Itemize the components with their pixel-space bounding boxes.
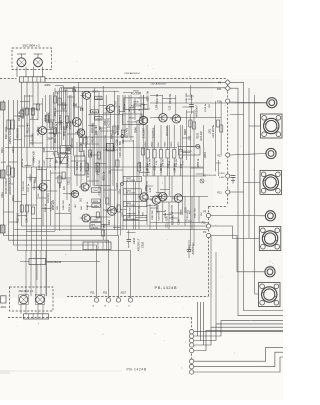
svg-text:C311 47p: C311 47p (33, 157, 35, 167)
resistor bank R243-R251 (146, 125, 182, 176)
pin P13 (226, 190, 230, 194)
wire bus left 3 (14, 100, 97, 298)
wire bus left 4 (18, 100, 131, 298)
wire rail y222 (150, 222, 208, 224)
svg-text:C318 1u: C318 1u (205, 103, 207, 112)
wire rail y137 (79, 136, 124, 138)
pin P23 (106, 298, 110, 302)
wire mesh verticals (26, 82, 221, 296)
svg-text:R361: R361 (60, 182, 62, 188)
svg-text:R248: R248 (185, 129, 187, 135)
connector CN2 jack (260, 171, 282, 195)
diode D301 (73, 89, 76, 92)
svg-text:R234 1W: R234 1W (170, 93, 172, 103)
pin CN5-2 (189, 334, 193, 338)
capacitor C240 box (91, 217, 101, 222)
svg-text:R387 560: R387 560 (195, 207, 197, 217)
svg-text:C340 47u: C340 47u (27, 212, 29, 223)
svg-text:R301: R301 (2, 147, 4, 153)
module box D4-152 (75, 156, 85, 175)
svg-text:C319 47p: C319 47p (48, 192, 50, 203)
wire rail y226 (22, 225, 209, 227)
switch S301 contact b (57, 153, 61, 163)
wire (42, 110, 44, 127)
svg-text:R382 560: R382 560 (152, 209, 154, 219)
wire rail (55, 90, 119, 92)
svg-text:AR50V 220x5: AR50V 220x5 (8, 127, 12, 144)
svg-text:C322 1u: C322 1u (69, 203, 71, 212)
relay RL301 coil box (61, 146, 71, 154)
node board outline jog (209, 206, 228, 208)
svg-text:R336: R336 (84, 150, 86, 156)
wire mesh batch2 (4, 86, 200, 296)
svg-text:R195 0.35W: R195 0.35W (87, 163, 90, 178)
resistor R263 (123, 189, 141, 194)
node board outline top edge (0, 78, 17, 80)
resistor R264 (123, 201, 147, 206)
transistor Q317 (105, 207, 116, 216)
svg-text:R230 1W: R230 1W (148, 90, 150, 100)
wire bottom pin buses (194, 302, 283, 372)
wire v254 (254, 95, 256, 294)
svg-text:R333 1k: R333 1k (22, 158, 24, 167)
svg-text:2SA1301: 2SA1301 (171, 204, 174, 213)
svg-text:C319: C319 (219, 173, 225, 175)
resistor R265 (123, 215, 147, 220)
svg-text:C316: C316 (142, 241, 145, 248)
wire rail y167 (22, 166, 204, 168)
svg-text:C317 1u: C317 1u (28, 183, 30, 192)
connector CN4 jack (259, 283, 281, 307)
svg-text:R228 1k: R228 1k (119, 105, 121, 114)
svg-text:R345 560: R345 560 (63, 199, 65, 209)
pin P21 (94, 298, 98, 302)
resistor scatter boxes (7, 96, 223, 236)
wire v249 (248, 88, 250, 238)
label pin letters (93, 305, 131, 308)
svg-text:P12: P12 (217, 155, 222, 157)
svg-text:AR500Vx7: AR500Vx7 (192, 242, 195, 255)
svg-text:R323 4k7: R323 4k7 (61, 120, 63, 130)
svg-text:LGR 119Hu: LGR 119Hu (212, 124, 215, 138)
svg-text:AR50V: AR50V (30, 174, 33, 182)
module terminal block (83, 242, 111, 250)
wire rail y196 (150, 195, 208, 197)
pin P20 (225, 86, 230, 91)
svg-text:C313 A/R100Vx7: C313 A/R100Vx7 (151, 83, 168, 86)
wire (6, 370, 122, 372)
wire rail y176 (143, 175, 206, 177)
wire (21, 82, 23, 226)
svg-text:R223: R223 (93, 201, 99, 203)
pin P1A (226, 99, 230, 103)
wire rail y117 (150, 117, 221, 119)
node board outline bottom edge (67, 296, 209, 298)
pin CN5-6 (189, 359, 193, 363)
svg-text:LOR 5W: LOR 5W (149, 159, 151, 167)
svg-text:PB-1424B: PB-1424B (127, 368, 147, 372)
wire sq3 feed (249, 238, 260, 240)
wire (32, 82, 34, 147)
capacitor C315 (187, 240, 191, 258)
svg-text:R331 560: R331 560 (55, 132, 57, 143)
transistor Q306 (75, 129, 85, 136)
svg-text:PB-1424B: PB-1424B (155, 285, 178, 290)
svg-text:R317 820: R317 820 (31, 107, 35, 119)
svg-text:R339 220: R339 220 (23, 180, 25, 190)
pin P8 (225, 80, 230, 85)
node board outline right edge (227, 80, 229, 205)
svg-text:C323: C323 (117, 183, 119, 189)
svg-text:0.22: 0.22 (168, 163, 170, 168)
svg-text:E107: E107 (93, 92, 99, 94)
svg-text:C307 47p: C307 47p (127, 127, 129, 138)
wire mid-bottom link b (215, 252, 217, 324)
svg-text:25C2291: 25C2291 (107, 117, 110, 128)
pin CN5-1 (189, 330, 193, 334)
label texture group (2, 90, 207, 228)
wire sq2 feed (244, 182, 261, 184)
svg-text:LOR: LOR (157, 104, 159, 109)
wire mid-bottom link a (210, 236, 212, 327)
svg-text:C328 47u: C328 47u (159, 210, 161, 220)
resistor 100 box (92, 204, 100, 208)
wire (37, 82, 39, 120)
svg-text:2SC1904 x 2: 2SC1904 x 2 (23, 43, 41, 47)
transistor Q316 (79, 183, 89, 191)
svg-text:0.022: 0.022 (1, 162, 7, 164)
svg-text:C707: C707 (115, 100, 118, 107)
svg-text:R365 220: R365 220 (53, 199, 55, 210)
wire P11 feed (211, 226, 249, 239)
node speckle (11, 60, 275, 369)
pin CN5-7 (189, 365, 193, 369)
svg-text:GP2: GP2 (109, 219, 111, 224)
svg-text:R337 1k2: R337 1k2 (50, 158, 52, 168)
wire bus left 2 (9, 100, 109, 298)
transistor Q303 (70, 118, 81, 127)
module A301 dashed enclosure (12, 48, 52, 70)
resistor F2 circle label (121, 135, 135, 139)
svg-text:R384 1k: R384 1k (165, 209, 167, 218)
svg-text:C310: C310 (93, 190, 99, 192)
svg-text:0.022: 0.022 (44, 159, 46, 165)
wire (0, 79, 213, 298)
wire P20 feed (230, 88, 283, 316)
wire P9 to terminal (211, 215, 266, 217)
pin P9 (206, 213, 210, 217)
wire bus left 1 (4, 100, 119, 298)
svg-text:P13: P13 (217, 192, 222, 194)
transistor Q309 (157, 114, 168, 122)
svg-text:R343 1k: R343 1k (45, 203, 47, 212)
transistor Q352 (34, 58, 43, 67)
transistor Q308 (137, 116, 148, 124)
module A304 dashed enclosure (10, 287, 54, 311)
svg-text:R335 560: R335 560 (39, 159, 41, 169)
resistor R319 (0, 225, 5, 233)
capacitor C316 (127, 230, 131, 248)
svg-text:R232 1W: R232 1W (157, 93, 159, 103)
svg-text:R309: R309 (13, 195, 15, 201)
wire sq1 feed (249, 125, 261, 127)
transistor Q305 (105, 105, 115, 113)
transistor Q310 (170, 115, 181, 123)
svg-text:R238: R238 (133, 91, 139, 93)
resistor R262 (123, 176, 141, 181)
pin A207 (128, 298, 132, 302)
capacitor C310 box (91, 188, 101, 192)
wire rail y114 (88, 114, 123, 116)
diode D303 (80, 108, 83, 111)
connector J1 terminal (267, 98, 277, 108)
resistor R240 box (123, 114, 143, 125)
transistor Q315 (69, 190, 78, 197)
svg-text:A207: A207 (121, 292, 127, 295)
svg-text:R386: R386 (181, 209, 183, 215)
connector strip lower (24, 314, 49, 319)
svg-text:P20: P20 (217, 89, 222, 91)
wire rail y147 (5, 147, 177, 149)
svg-text:LOR 5W: LOR 5W (147, 163, 149, 173)
svg-text:220u: 220u (27, 162, 29, 168)
svg-text:R229 560: R229 560 (134, 102, 136, 112)
svg-text:C303 1u: C303 1u (56, 123, 58, 132)
svg-text:C321: C321 (69, 179, 71, 185)
svg-text:A304: A304 (1, 306, 7, 309)
svg-text:R240: R240 (129, 118, 135, 120)
wire P2 feed (211, 236, 265, 272)
svg-text:C316: C316 (133, 237, 136, 244)
svg-text:R311 220p: R311 220p (4, 126, 8, 139)
resistor F1 box (179, 147, 201, 156)
svg-text:C326: C326 (122, 211, 124, 217)
svg-text:D311 KB-152: D311 KB-152 (48, 262, 62, 264)
resistor R252 circle (200, 179, 204, 183)
resistor R239 box (124, 98, 148, 110)
resistor R316 box (107, 143, 114, 151)
svg-text:C320 47u: C320 47u (51, 200, 53, 210)
svg-text:0.22: 0.22 (190, 135, 192, 140)
connector J4 terminal (265, 267, 275, 277)
svg-text:0.22 5W: 0.22 5W (172, 211, 174, 220)
svg-text:F4.7-1/2W: F4.7-1/2W (131, 94, 142, 96)
svg-text:220u: 220u (2, 192, 4, 198)
node lower board dashed right edge (191, 318, 193, 329)
svg-text:R312 4k7: R312 4k7 (28, 122, 30, 133)
node P junction (121, 182, 124, 186)
connector CN1 jack (261, 114, 283, 138)
wire stubs (26, 86, 221, 232)
svg-text:C314: C314 (188, 99, 194, 101)
wire second rail (60, 87, 225, 89)
svg-text:C332: C332 (179, 219, 181, 225)
capacitor C314 (189, 95, 194, 114)
svg-text:R254: R254 (205, 152, 207, 158)
svg-text:R321 1k: R321 1k (55, 107, 57, 116)
relay RL301 armature (61, 153, 68, 164)
svg-text:0.22: 0.22 (155, 165, 157, 170)
pin P2 (206, 233, 210, 237)
node board outline mid edge (208, 207, 210, 297)
svg-text:D301: D301 (63, 91, 69, 93)
svg-text:0.22: 0.22 (181, 163, 183, 168)
transistor Q312 (150, 196, 161, 204)
resistor R310 (0, 170, 5, 178)
svg-text:P1A: P1A (217, 100, 222, 103)
resistor R122 box (91, 110, 99, 113)
module GP3 box (90, 222, 101, 229)
svg-text:R352 100: R352 100 (18, 212, 20, 223)
wire P8 feed (230, 82, 283, 310)
svg-text:D4-152: D4-152 (76, 161, 79, 170)
resistor C109 box (94, 96, 102, 99)
transistor Q351 (17, 58, 26, 67)
transistor Q314 (172, 194, 183, 202)
svg-text:25A7W4: 25A7W4 (91, 226, 98, 229)
connector J2 terminal (266, 148, 276, 158)
connector J3 terminal (265, 211, 275, 221)
svg-text:2SC1345: 2SC1345 (47, 112, 51, 123)
wire P1A to terminal (230, 101, 267, 104)
svg-text:AR500Vx7: AR500Vx7 (196, 104, 199, 117)
wire rail y103 (150, 102, 267, 104)
pin CN5-4 (189, 343, 193, 347)
resistor R305 stack (79, 138, 87, 152)
svg-text:C313 AR100Vx7: C313 AR100Vx7 (124, 72, 141, 75)
capacitor C309 box (94, 117, 102, 120)
svg-text:0.22: 0.22 (150, 187, 152, 192)
module A304 box (1, 296, 7, 303)
pin CN5-3 (189, 338, 193, 342)
transistor Q311 (138, 193, 149, 201)
svg-text:AR100V 220x5: AR100V 220x5 (8, 177, 12, 195)
svg-text:0.22: 0.22 (144, 103, 146, 108)
wire rail y229 (14, 229, 208, 231)
svg-text:C309: C309 (96, 118, 102, 120)
svg-text:0.22: 0.22 (170, 105, 172, 110)
transistor Q302 (36, 127, 46, 135)
svg-text:AR120V LT: AR120V LT (138, 238, 141, 251)
wire (26, 82, 28, 162)
wire (20, 304, 22, 314)
svg-text:R340 4k7: R340 4k7 (34, 180, 36, 190)
svg-text:2SC1904 x 2: 2SC1904 x 2 (19, 290, 34, 293)
svg-text:C240: C240 (147, 117, 149, 123)
svg-text:C306 1u: C306 1u (124, 103, 126, 112)
svg-text:R303 560: R303 560 (18, 127, 20, 138)
wire (16, 67, 18, 77)
svg-text:C301: C301 (13, 147, 15, 153)
wire (42, 191, 44, 226)
resistor R223 box (92, 199, 100, 203)
wire top rail (45, 81, 225, 83)
transistor Q318 (80, 214, 90, 222)
pin CN5-5 (189, 348, 193, 352)
resistor R302 (0, 102, 5, 110)
svg-text:R241 560: R241 560 (186, 92, 188, 102)
resistor R253 circle (196, 144, 200, 148)
svg-text:Ω10.2W: Ω10.2W (200, 131, 203, 141)
node lower board dashed edge (8, 317, 192, 319)
pin P16 (226, 174, 230, 178)
transistor Q354 (35, 295, 45, 305)
svg-text:R375 560: R375 560 (130, 206, 132, 216)
svg-text:25A192: 25A192 (80, 162, 83, 171)
transistor Q304 (81, 91, 91, 99)
svg-text:C313 47u: C313 47u (55, 159, 57, 169)
svg-text:25A: 25A (103, 223, 106, 228)
label texture group 2 (22, 92, 211, 220)
svg-text:A303: A303 (45, 84, 51, 87)
switch S301 contact a (53, 153, 57, 163)
svg-text:F100-2W: F100-2W (119, 147, 122, 158)
pin P11 (206, 224, 210, 228)
svg-text:0.007: 0.007 (219, 177, 225, 179)
pin P25 (116, 298, 120, 302)
connector A303 socket strip (20, 77, 46, 82)
svg-text:25C: 25C (38, 193, 40, 197)
transistor Q307 (37, 183, 47, 191)
diode D302 (73, 103, 76, 106)
svg-text:R313 470Ω·5: R313 470Ω·5 (4, 178, 8, 194)
svg-text:R256 1k: R256 1k (198, 158, 200, 167)
wire sq4 feed (255, 293, 259, 295)
wire jack1 top feed (230, 114, 244, 116)
label bank values (145, 141, 185, 167)
svg-text:200P: 200P (48, 139, 54, 141)
svg-text:C327 47u: C327 47u (139, 204, 141, 214)
wire rail y258 (20, 261, 29, 263)
pin CN5-8 (189, 370, 193, 374)
svg-text:C334 47u: C334 47u (187, 209, 189, 219)
svg-text:LOR 5W: LOR 5W (174, 163, 176, 173)
pin P12 (226, 153, 230, 157)
svg-text:LOR 5W: LOR 5W (161, 163, 163, 173)
svg-text:C240: C240 (92, 219, 98, 221)
svg-text:P23: P23 (103, 293, 108, 295)
connector CN3 jack (259, 227, 281, 251)
wire P13 feed (230, 191, 244, 193)
wire P12 to terminal (230, 154, 266, 156)
transistor Q353 (19, 295, 29, 305)
svg-text:R349 1k: R349 1k (87, 201, 89, 210)
capacitor C319 (231, 175, 236, 183)
transistor Q313 (156, 193, 167, 201)
svg-text:P21: P21 (91, 293, 96, 295)
module D311 box (29, 259, 46, 265)
wire (21, 54, 23, 58)
